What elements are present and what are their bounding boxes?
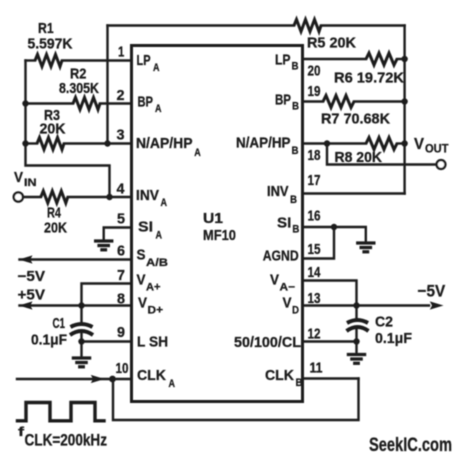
svg-text:V: V bbox=[138, 296, 147, 312]
svg-text:19: 19 bbox=[308, 83, 321, 100]
svg-text:B: B bbox=[292, 61, 299, 73]
svg-text:8.305K: 8.305K bbox=[59, 81, 99, 97]
svg-text:8: 8 bbox=[117, 291, 125, 308]
svg-text:0.1μF: 0.1μF bbox=[375, 331, 412, 347]
svg-text:LP: LP bbox=[275, 53, 291, 69]
svg-text:A: A bbox=[156, 230, 163, 242]
svg-text:CLK: CLK bbox=[137, 368, 167, 384]
svg-text:OUT: OUT bbox=[425, 142, 449, 156]
svg-text:CLK=200kHz: CLK=200kHz bbox=[25, 431, 108, 450]
svg-text:A: A bbox=[155, 103, 162, 115]
svg-text:INV: INV bbox=[267, 184, 289, 200]
svg-text:SeekIC.com: SeekIC.com bbox=[369, 434, 452, 456]
svg-text:6: 6 bbox=[117, 243, 125, 260]
svg-text:10: 10 bbox=[116, 360, 129, 377]
svg-text:14: 14 bbox=[308, 264, 322, 281]
svg-text:R8 20K: R8 20K bbox=[335, 150, 383, 166]
svg-text:A−: A− bbox=[280, 282, 296, 294]
svg-text:B: B bbox=[292, 145, 299, 157]
svg-text:R5 20K: R5 20K bbox=[307, 36, 357, 52]
svg-text:L SH: L SH bbox=[137, 335, 168, 351]
svg-text:5.597K: 5.597K bbox=[28, 37, 74, 53]
svg-text:N/AP/HP: N/AP/HP bbox=[136, 136, 193, 152]
svg-text:V: V bbox=[414, 136, 424, 153]
svg-text:B: B bbox=[290, 194, 297, 206]
svg-text:7: 7 bbox=[117, 267, 125, 284]
svg-text:IN: IN bbox=[24, 177, 37, 189]
svg-text:B: B bbox=[296, 377, 303, 389]
svg-text:S: S bbox=[137, 248, 146, 264]
svg-text:3: 3 bbox=[117, 127, 125, 144]
svg-text:A/B: A/B bbox=[146, 257, 168, 269]
svg-text:2: 2 bbox=[117, 87, 125, 104]
svg-text:D+: D+ bbox=[148, 305, 164, 317]
svg-text:BP: BP bbox=[138, 95, 154, 111]
svg-text:C1: C1 bbox=[53, 316, 66, 332]
svg-text:15: 15 bbox=[308, 241, 321, 258]
svg-text:V: V bbox=[283, 296, 292, 312]
svg-text:12: 12 bbox=[308, 326, 321, 343]
svg-text:17: 17 bbox=[308, 172, 321, 189]
svg-text:D: D bbox=[292, 305, 299, 317]
svg-text:20: 20 bbox=[308, 63, 321, 80]
svg-text:MF10: MF10 bbox=[203, 228, 236, 244]
svg-text:V: V bbox=[137, 273, 146, 289]
svg-text:5: 5 bbox=[117, 211, 125, 228]
svg-text:13: 13 bbox=[308, 290, 321, 307]
svg-text:A+: A+ bbox=[146, 282, 161, 294]
svg-text:A: A bbox=[153, 62, 160, 74]
svg-text:N/AP/HP: N/AP/HP bbox=[236, 136, 291, 152]
svg-text:16: 16 bbox=[308, 208, 321, 225]
svg-text:CLK: CLK bbox=[265, 368, 295, 384]
svg-text:9: 9 bbox=[117, 324, 125, 341]
svg-text:U1: U1 bbox=[203, 211, 223, 227]
svg-text:INV: INV bbox=[136, 188, 159, 204]
svg-text:V: V bbox=[270, 273, 279, 289]
svg-text:A: A bbox=[169, 378, 176, 390]
svg-text:BP: BP bbox=[275, 93, 291, 109]
svg-text:SI: SI bbox=[277, 216, 291, 232]
svg-text:20K: 20K bbox=[40, 122, 67, 138]
svg-text:18: 18 bbox=[308, 147, 321, 164]
svg-text:A: A bbox=[194, 147, 201, 159]
svg-text:R7 70.68K: R7 70.68K bbox=[321, 112, 391, 128]
svg-text:C2: C2 bbox=[375, 315, 393, 331]
svg-text:R1: R1 bbox=[38, 21, 54, 37]
svg-text:LP: LP bbox=[137, 53, 151, 69]
svg-text:SI: SI bbox=[138, 220, 153, 236]
svg-text:−5V: −5V bbox=[18, 269, 46, 285]
svg-text:R4: R4 bbox=[47, 206, 61, 222]
svg-text:50/100/CL: 50/100/CL bbox=[234, 335, 301, 351]
svg-text:+5V: +5V bbox=[18, 288, 46, 304]
svg-text:−5V: −5V bbox=[418, 282, 446, 301]
svg-text:B: B bbox=[292, 101, 299, 113]
svg-text:0.1μF: 0.1μF bbox=[31, 333, 67, 349]
svg-text:A: A bbox=[161, 197, 168, 209]
svg-text:B: B bbox=[292, 224, 299, 236]
svg-text:1: 1 bbox=[118, 44, 124, 61]
svg-text:11: 11 bbox=[310, 360, 323, 377]
svg-text:V: V bbox=[14, 170, 23, 186]
svg-text:AGND: AGND bbox=[263, 249, 299, 265]
svg-text:R6 19.72K: R6 19.72K bbox=[334, 71, 405, 87]
svg-text:20K: 20K bbox=[44, 221, 67, 237]
svg-text:4: 4 bbox=[117, 181, 126, 198]
